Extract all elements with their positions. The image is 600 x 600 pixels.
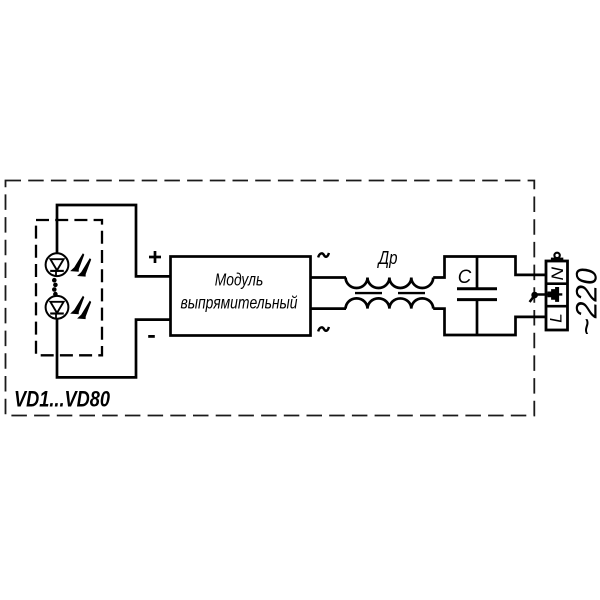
svg-text:N: N xyxy=(548,266,567,280)
mounting screw tab xyxy=(551,258,563,262)
svg-text:Др: Др xyxy=(377,248,398,268)
connector divider 2 xyxy=(546,305,568,308)
LED module dashed box VD1...VD80 xyxy=(36,220,102,355)
wire (module AC top to choke) xyxy=(311,276,347,279)
LED VD2 light arrow 2 xyxy=(77,301,91,320)
wire (LED top to module + terminal) xyxy=(57,205,171,276)
svg-text:C: C xyxy=(458,266,472,288)
wire (choke top to filter top rail, to N terminal) xyxy=(433,257,546,278)
connector terminal block X1 xyxy=(546,261,568,330)
wire (earth dot to PE terminal) xyxy=(535,293,546,296)
mounting screw ring xyxy=(554,253,559,258)
wire (module AC bottom to choke) xyxy=(311,307,347,310)
PE earth symbol xyxy=(546,287,562,302)
svg-text:~220: ~220 xyxy=(571,268,600,336)
connector divider 1 xyxy=(546,282,568,285)
LED VD1 light arrow 1 xyxy=(70,253,84,272)
choke winding top xyxy=(346,278,434,289)
LED VD1 xyxy=(46,253,69,276)
label - (minus polarity) xyxy=(148,335,155,338)
series dots (omitted LEDs) xyxy=(52,278,58,297)
choke core bar right xyxy=(398,292,425,294)
svg-text:Модуль: Модуль xyxy=(215,270,264,290)
svg-text:выпрямительный: выпрямительный xyxy=(181,292,298,312)
choke core bar left xyxy=(355,292,382,294)
LED VD2 xyxy=(46,296,69,319)
choke winding bottom xyxy=(346,298,434,308)
capacitor C xyxy=(457,257,497,336)
label ~ (bottom AC) xyxy=(318,327,329,332)
earth junction dot on enclosure xyxy=(531,292,538,299)
svg-text:VD1...VD80: VD1...VD80 xyxy=(14,387,111,412)
wire (choke bottom to filter bottom rail, to L terminal) xyxy=(433,309,546,335)
label + (plus polarity) xyxy=(149,251,161,263)
LED VD2 light arrow 1 xyxy=(70,296,84,315)
label ~ (top AC) xyxy=(318,253,329,258)
chassis tail stroke xyxy=(530,296,534,302)
wire (module - terminal to LED bottom) xyxy=(57,319,171,378)
LED VD1 light arrow 2 xyxy=(77,258,91,277)
rectifier module box U1 xyxy=(171,257,311,336)
svg-text:L: L xyxy=(546,313,565,322)
enclosure dashed frame xyxy=(6,181,535,416)
